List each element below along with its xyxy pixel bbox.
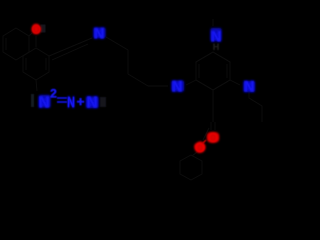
svg-text:N: N (94, 25, 104, 41)
atom O counter fill (34, 25, 38, 31)
bonds halo layer (3, 19, 262, 180)
diazo N3 trailing H (dim) (100, 97, 106, 107)
red bond accent into O2 (202, 140, 206, 144)
svg-text:H: H (213, 42, 220, 52)
nitrile N tail (99, 39, 101, 47)
N left tail (176, 92, 178, 98)
svg-text:+: + (77, 94, 85, 109)
bonds medium layer (more visible bonds) (49, 38, 230, 122)
ring C outline (medium) (196, 52, 230, 90)
svg-text:N: N (39, 94, 50, 111)
atom O1 counter fill (210, 134, 216, 140)
diazo H bar (grey) (31, 94, 34, 107)
svg-text:N: N (172, 78, 182, 94)
ester vertical (medium) (212, 90, 214, 122)
svg-text:N: N (244, 78, 254, 94)
svg-text:O: O (32, 23, 41, 37)
N right tail (248, 92, 250, 97)
atom O-H dim H (41, 25, 46, 33)
atom blob underlays (33, 24, 255, 153)
nitrile diagonal (medium) (49, 38, 92, 56)
svg-text:N: N (67, 93, 75, 110)
diazo double bond (=) (57, 98, 67, 102)
svg-text:2: 2 (50, 87, 57, 101)
svg-text:N: N (87, 94, 98, 111)
svg-text:O: O (208, 130, 218, 145)
atom O2 counter fill (197, 144, 203, 150)
